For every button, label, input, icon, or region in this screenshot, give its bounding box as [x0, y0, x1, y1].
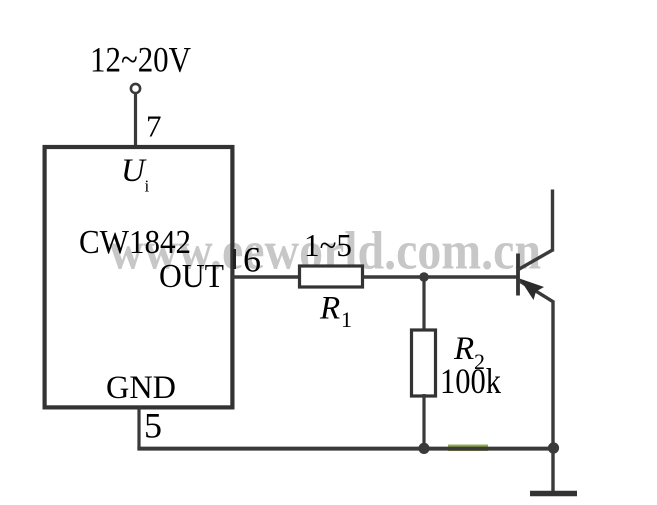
- node junction top: [419, 272, 429, 282]
- svg-text:100k: 100k: [440, 361, 501, 401]
- transistor Q1 collector diagonal: [518, 250, 553, 270]
- transistor Q1 base bar: [516, 254, 520, 296]
- svg-text:R: R: [319, 291, 340, 327]
- svg-text:GND: GND: [106, 370, 176, 406]
- transistor Q1 collector lead: [551, 190, 554, 252]
- supply terminal circle: [131, 84, 140, 93]
- wire R2 to bottom rail: [422, 394, 425, 448]
- svg-text:1~5: 1~5: [304, 227, 352, 263]
- label R1: [319, 291, 352, 333]
- label R2: [453, 331, 485, 374]
- resistor R1 body: [300, 266, 363, 287]
- pin 6 tick: [233, 249, 236, 269]
- transistor Q1 emitter arrow: [520, 279, 545, 301]
- wire junction to R2: [422, 277, 425, 332]
- svg-text:U: U: [121, 153, 147, 189]
- node junction bottom right: [548, 442, 559, 453]
- svg-text:7: 7: [146, 109, 162, 144]
- wire pin6 to R1: [232, 275, 300, 278]
- svg-text:1: 1: [341, 307, 352, 332]
- wire R1 to transistor base: [362, 275, 517, 278]
- ground: [530, 491, 577, 497]
- green watermark fragment: [448, 445, 488, 452]
- node junction bottom left: [418, 443, 429, 454]
- resistor R2 body: [412, 330, 436, 396]
- wire pin5 vertical: [137, 407, 140, 450]
- svg-text:12~20V: 12~20V: [90, 40, 191, 80]
- transistor Q1 emitter diagonal: [518, 280, 553, 302]
- transistor Q1 emitter lead: [551, 301, 554, 492]
- svg-text:5: 5: [144, 406, 162, 446]
- wire bottom rail: [137, 447, 554, 451]
- wire pin7 vertical: [134, 94, 137, 149]
- svg-text:i: i: [145, 177, 150, 196]
- IC U1 CW1842 box: [45, 147, 233, 407]
- svg-text:OUT: OUT: [159, 258, 224, 295]
- svg-text:6: 6: [243, 240, 261, 280]
- label Ui: [121, 153, 150, 196]
- svg-text:CW1842: CW1842: [79, 224, 191, 261]
